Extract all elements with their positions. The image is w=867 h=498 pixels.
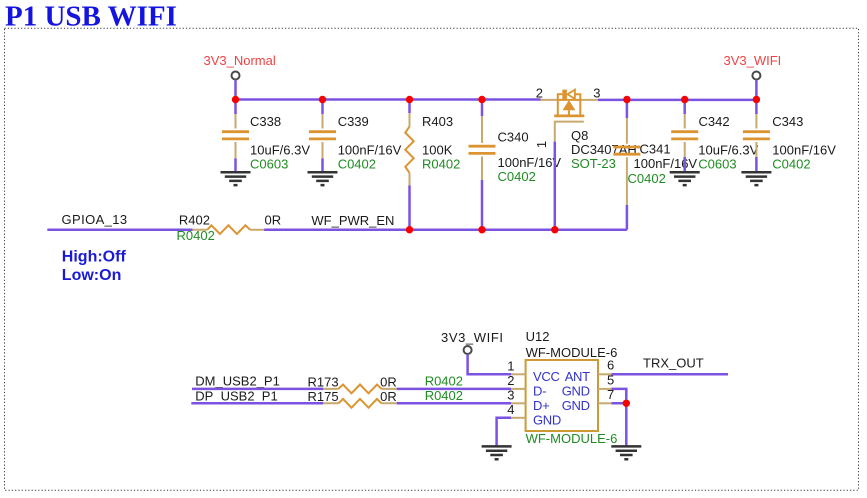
svg-text:1: 1 bbox=[507, 359, 514, 374]
svg-text:100nF/16V: 100nF/16V bbox=[772, 142, 836, 157]
capacitor C340 bbox=[469, 100, 562, 230]
svg-text:High:Off: High:Off bbox=[62, 249, 127, 266]
svg-text:GND: GND bbox=[562, 384, 590, 399]
svg-text:3V3_Normal: 3V3_Normal bbox=[204, 53, 276, 68]
body diode triangle bbox=[568, 90, 575, 99]
svg-text:C343: C343 bbox=[772, 114, 803, 129]
svg-text:100K: 100K bbox=[422, 142, 453, 157]
wire: bottom WF_PWR_EN rail bbox=[47, 228, 627, 231]
capacitor C342 bbox=[671, 100, 758, 173]
svg-text:10uF/6.3V: 10uF/6.3V bbox=[698, 142, 758, 157]
power port 3V3_WIFI (top right) bbox=[724, 53, 782, 100]
svg-text:R175: R175 bbox=[308, 389, 339, 404]
capacitor C343 bbox=[743, 100, 836, 173]
junction 3V3_Normal/C338 bbox=[232, 96, 239, 103]
arrow triangle bbox=[563, 100, 576, 110]
wire: top power rail 3V3_Normal bbox=[236, 98, 541, 101]
svg-text:VCC: VCC bbox=[533, 369, 560, 384]
junction C340 bottom bbox=[478, 226, 485, 233]
svg-text:2: 2 bbox=[507, 373, 514, 388]
svg-text:C340: C340 bbox=[498, 130, 529, 145]
wire pin5/pin7 to ground bbox=[612, 389, 627, 447]
wire: top power rail after Q8 (3V3_WIFI side) bbox=[598, 99, 757, 102]
svg-text:R0402: R0402 bbox=[425, 388, 463, 403]
junction pin7 bbox=[623, 400, 630, 407]
junction C343 / 3V3_WIFI bbox=[753, 96, 760, 103]
svg-text:100nF/16V: 100nF/16V bbox=[498, 155, 562, 170]
pin 2 lead bbox=[541, 99, 558, 101]
svg-text:ANT: ANT bbox=[565, 369, 590, 384]
wire R173 to pin2 bbox=[397, 388, 511, 391]
svg-text:Q8: Q8 bbox=[571, 128, 588, 143]
ground under C342 bbox=[670, 172, 700, 185]
junction R403 top bbox=[406, 96, 413, 103]
svg-text:C0402: C0402 bbox=[772, 157, 810, 172]
svg-text:C341: C341 bbox=[640, 142, 671, 157]
svg-text:1: 1 bbox=[534, 141, 549, 148]
svg-text:6: 6 bbox=[607, 358, 614, 373]
svg-text:WF-MODULE-6: WF-MODULE-6 bbox=[526, 345, 618, 360]
wire DP to R175 bbox=[191, 402, 323, 405]
svg-text:C0402: C0402 bbox=[628, 171, 666, 186]
pin 1 stub bbox=[511, 373, 526, 375]
svg-text:3: 3 bbox=[507, 388, 514, 403]
svg-text:C0603: C0603 bbox=[250, 157, 288, 172]
svg-text:Low:On: Low:On bbox=[62, 267, 122, 284]
svg-text:D+: D+ bbox=[533, 398, 549, 413]
svg-text:GND: GND bbox=[562, 398, 590, 413]
pin 5 stub bbox=[598, 388, 612, 390]
svg-text:R402: R402 bbox=[179, 213, 210, 228]
svg-text:0R: 0R bbox=[380, 389, 397, 404]
wire pin4 to ground bbox=[497, 418, 511, 447]
svg-text:3V3_WIFI: 3V3_WIFI bbox=[441, 330, 504, 345]
svg-text:R173: R173 bbox=[308, 375, 339, 390]
IC U12 WF-MODULE-6 bbox=[507, 329, 617, 446]
svg-text:TRX_OUT: TRX_OUT bbox=[643, 356, 704, 371]
junction C341 top bbox=[623, 96, 630, 103]
wire TRX_OUT bbox=[612, 373, 729, 376]
svg-text:0R: 0R bbox=[380, 375, 397, 390]
svg-text:C342: C342 bbox=[699, 114, 730, 129]
pin 6 stub bbox=[598, 373, 612, 375]
body outline bbox=[558, 94, 581, 114]
wire DM to R173 bbox=[192, 388, 323, 391]
svg-text:R0402: R0402 bbox=[425, 373, 463, 388]
svg-text:C0402: C0402 bbox=[338, 157, 376, 172]
transistor Q8 (PMOS DC3407AH) bbox=[534, 86, 637, 230]
ground under C339 bbox=[308, 172, 338, 185]
ground at U12 pin 4 bbox=[482, 446, 512, 459]
resistor R402 bbox=[177, 213, 282, 243]
resistor R173 bbox=[308, 373, 464, 393]
gate plate bbox=[554, 115, 584, 118]
pin 4 stub bbox=[511, 417, 526, 419]
capacitor C339 bbox=[309, 100, 402, 173]
svg-text:0R: 0R bbox=[265, 213, 282, 228]
svg-text:C339: C339 bbox=[338, 114, 369, 129]
svg-text:4: 4 bbox=[507, 402, 514, 417]
pin 3 lead bbox=[580, 99, 598, 101]
gate wire down bbox=[554, 142, 557, 230]
svg-text:100nF/16V: 100nF/16V bbox=[338, 142, 402, 157]
svg-text:10uF/6.3V: 10uF/6.3V bbox=[250, 142, 310, 157]
power port 3V3_Normal bbox=[204, 53, 276, 100]
svg-text:WF_PWR_EN: WF_PWR_EN bbox=[311, 213, 394, 228]
svg-text:P1 USB WIFI: P1 USB WIFI bbox=[5, 0, 177, 32]
ground under C338 bbox=[221, 172, 251, 185]
svg-text:R0402: R0402 bbox=[422, 157, 460, 172]
svg-text:GPIOA_13: GPIOA_13 bbox=[62, 212, 128, 227]
svg-text:C0402: C0402 bbox=[498, 169, 536, 184]
junction C342 bbox=[681, 96, 688, 103]
svg-text:D-: D- bbox=[533, 384, 546, 399]
svg-text:3: 3 bbox=[593, 86, 600, 101]
svg-text:3V3_WIFI: 3V3_WIFI bbox=[724, 53, 782, 68]
resistor R403 bbox=[405, 100, 460, 230]
resistor R175 bbox=[308, 388, 464, 408]
junction C340 top bbox=[478, 96, 485, 103]
svg-text:R403: R403 bbox=[422, 114, 453, 129]
svg-text:C338: C338 bbox=[250, 114, 281, 129]
svg-text:SOT-23: SOT-23 bbox=[571, 156, 616, 171]
wire R175 to pin3 bbox=[397, 402, 511, 405]
svg-text:GND: GND bbox=[533, 413, 561, 428]
ground at U12 pin 5/7 bbox=[611, 446, 641, 459]
power port 3V3_WIFI (bottom) bbox=[441, 330, 511, 374]
svg-text:DM_USB2_P1: DM_USB2_P1 bbox=[195, 373, 280, 388]
pin 3 stub bbox=[511, 402, 526, 404]
body diode bar bbox=[562, 90, 567, 100]
capacitor C341 bbox=[613, 100, 697, 230]
svg-text:2: 2 bbox=[536, 86, 543, 101]
gate lead bbox=[555, 122, 584, 142]
svg-text:U12: U12 bbox=[526, 329, 550, 344]
svg-text:100nF/16V: 100nF/16V bbox=[634, 156, 698, 171]
svg-text:C0603: C0603 bbox=[698, 157, 736, 172]
note High:Off Low:On bbox=[62, 249, 127, 285]
junction C339 bbox=[319, 96, 326, 103]
svg-text:WF-MODULE-6: WF-MODULE-6 bbox=[526, 431, 618, 446]
junction R403 bottom bbox=[406, 226, 413, 233]
pin 7 stub bbox=[598, 402, 612, 404]
svg-text:DP_USB2_P1: DP_USB2_P1 bbox=[195, 389, 277, 404]
junction Q8 gate bottom bbox=[551, 226, 558, 233]
ground under C343 bbox=[741, 172, 771, 185]
svg-text:R0402: R0402 bbox=[177, 228, 215, 243]
pin 2 stub bbox=[511, 388, 526, 390]
capacitor C338 bbox=[222, 100, 310, 173]
